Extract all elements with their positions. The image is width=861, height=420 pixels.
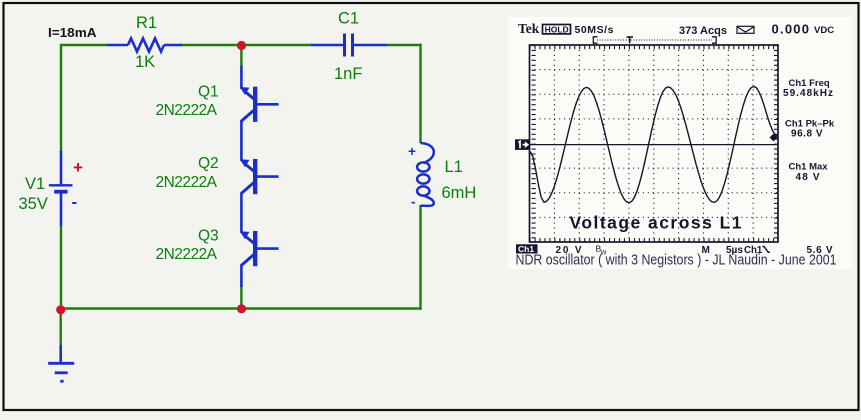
scope measure cursor diamond xyxy=(770,134,778,142)
svg-text:Ch1 Max: Ch1 Max xyxy=(789,162,829,173)
wire Q1-Q2 xyxy=(240,120,243,161)
svg-text:2N2222A: 2N2222A xyxy=(156,246,218,263)
svg-text:2N2222A: 2N2222A xyxy=(156,102,218,119)
svg-text:59.48kHz: 59.48kHz xyxy=(783,88,833,99)
ground xyxy=(48,345,74,381)
scope bottom ch1 box xyxy=(516,244,538,253)
svg-text:+: + xyxy=(73,158,83,177)
svg-text:L1: L1 xyxy=(445,158,463,176)
svg-text:1nF: 1nF xyxy=(334,65,362,83)
svg-text:-: - xyxy=(411,195,416,210)
svg-text:I=18mA: I=18mA xyxy=(48,25,97,40)
svg-text:HOLD: HOLD xyxy=(545,24,569,34)
wire top green xyxy=(60,44,422,346)
svg-text:Q1: Q1 xyxy=(198,84,219,101)
trigger slope xyxy=(763,247,770,253)
svg-text:50MS/s: 50MS/s xyxy=(575,24,614,36)
svg-text:R1: R1 xyxy=(136,14,157,32)
svg-text:Voltage across L1: Voltage across L1 xyxy=(570,213,742,233)
scope graticule border xyxy=(530,45,779,242)
svg-text:Q2: Q2 xyxy=(198,155,219,172)
svg-text:35V: 35V xyxy=(19,195,48,213)
transistor Q3 xyxy=(240,231,279,266)
svg-text:Q3: Q3 xyxy=(198,228,219,245)
scope record-view bar xyxy=(593,37,716,44)
svg-text:-: - xyxy=(72,193,78,212)
wire middle branch green bottom xyxy=(240,286,242,309)
wire ground branch green xyxy=(60,309,62,347)
svg-text:VDC: VDC xyxy=(814,25,834,36)
wire right green xyxy=(419,44,421,143)
wire Q3-bottom xyxy=(240,265,243,288)
svg-text:373 Acqs: 373 Acqs xyxy=(679,25,727,37)
scope printer icon xyxy=(737,26,754,33)
transistor Q2 xyxy=(240,159,279,194)
svg-text:Tek: Tek xyxy=(518,21,540,36)
transistor Q1 xyxy=(240,87,279,122)
scope grid dotted lines xyxy=(553,45,555,242)
wire middle blue above Q1 xyxy=(240,66,243,90)
resistor R1 xyxy=(107,38,182,51)
scope channel marker 1 xyxy=(515,139,530,150)
scope edge ticks xyxy=(530,46,779,49)
scope trace xyxy=(530,86,778,202)
inductor L1 xyxy=(417,143,434,206)
svg-text:NDR oscillator ( with 3 Negist: NDR oscillator ( with 3 Negistors ) - JL… xyxy=(516,252,837,268)
svg-text:1K: 1K xyxy=(135,53,155,71)
scope white background xyxy=(508,17,852,269)
svg-text:6mH: 6mH xyxy=(442,184,477,202)
wire Q2-Q3 xyxy=(240,193,243,234)
svg-text:+: + xyxy=(408,144,416,159)
node junction bottom-middle xyxy=(237,304,246,313)
svg-text:V1: V1 xyxy=(25,175,45,193)
wire middle branch green top xyxy=(240,45,242,67)
svg-text:96.8 V: 96.8 V xyxy=(791,129,823,140)
scope HOLD box xyxy=(543,25,571,34)
node junction top xyxy=(237,41,246,50)
svg-text:0.000: 0.000 xyxy=(772,22,810,37)
wire left green xyxy=(60,44,62,152)
battery V1 xyxy=(49,151,73,226)
svg-text:48 V: 48 V xyxy=(796,172,820,183)
svg-text:C1: C1 xyxy=(338,10,359,28)
wire bottom green xyxy=(60,307,422,309)
node junction bottom-left xyxy=(56,305,65,314)
capacitor C1 xyxy=(311,34,387,57)
svg-text:2N2222A: 2N2222A xyxy=(156,174,218,191)
scope ground reference line xyxy=(530,144,779,146)
